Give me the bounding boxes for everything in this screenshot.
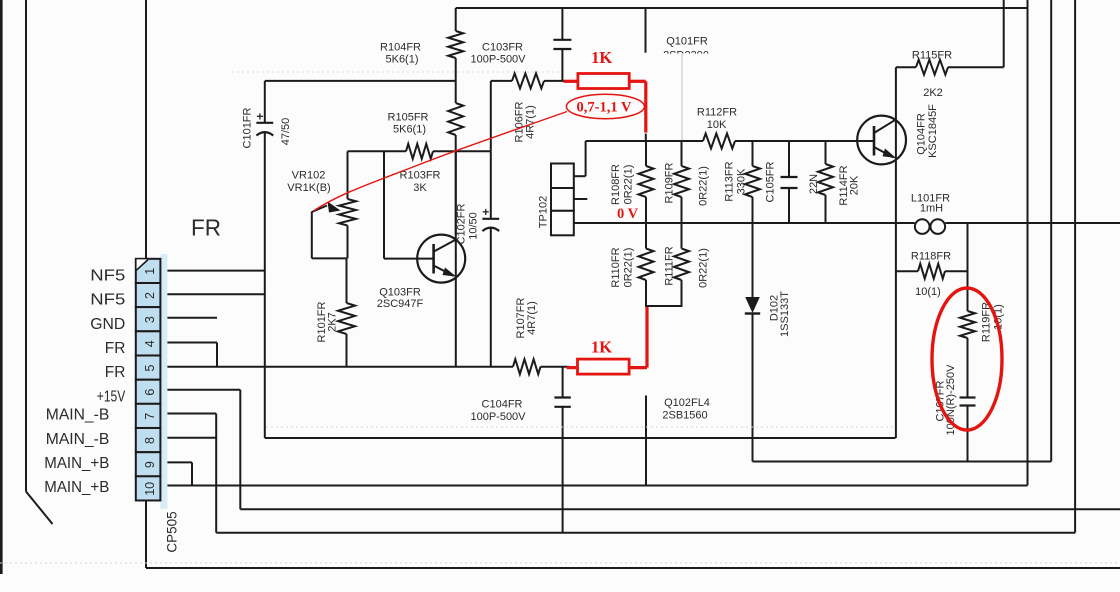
svg-text:R103FR: R103FR <box>400 170 441 182</box>
svg-text:0,7-1,1 V: 0,7-1,1 V <box>577 100 632 116</box>
svg-text:+: + <box>482 205 489 219</box>
svg-text:R112FR: R112FR <box>697 107 737 119</box>
svg-text:3: 3 <box>143 316 157 323</box>
svg-text:5K6(1): 5K6(1) <box>393 124 426 136</box>
svg-text:MAIN_-B: MAIN_-B <box>46 407 110 424</box>
svg-text:10/50: 10/50 <box>468 212 480 240</box>
svg-text:1: 1 <box>143 268 157 275</box>
svg-text:5: 5 <box>143 364 157 371</box>
svg-text:R109FR: R109FR <box>664 162 676 203</box>
svg-text:FR: FR <box>105 340 126 357</box>
svg-text:5K6(1): 5K6(1) <box>385 54 418 66</box>
svg-text:8: 8 <box>143 437 157 444</box>
svg-text:47/50: 47/50 <box>280 118 292 146</box>
svg-text:9: 9 <box>143 461 157 468</box>
svg-text:C101FR: C101FR <box>242 107 254 148</box>
svg-text:2K7: 2K7 <box>327 312 339 332</box>
svg-text:7: 7 <box>143 413 157 420</box>
svg-text:R104FR: R104FR <box>380 42 421 54</box>
svg-text:Q103FR: Q103FR <box>379 287 421 299</box>
svg-text:MAIN_+B: MAIN_+B <box>44 455 109 472</box>
svg-text:R105FR: R105FR <box>388 112 429 124</box>
svg-text:20K: 20K <box>849 175 861 195</box>
svg-text:MAIN_+B: MAIN_+B <box>44 479 109 496</box>
svg-text:CP505: CP505 <box>164 511 179 552</box>
svg-text:0R22(1): 0R22(1) <box>623 165 635 205</box>
svg-text:100P-500V: 100P-500V <box>470 54 526 66</box>
svg-text:FR: FR <box>191 215 221 241</box>
svg-text:VR102: VR102 <box>292 170 326 182</box>
svg-text:+15V: +15V <box>97 388 126 405</box>
svg-text:10: 10 <box>143 482 157 496</box>
svg-text:NF5: NF5 <box>90 268 125 285</box>
svg-text:2: 2 <box>143 292 157 299</box>
svg-text:330K: 330K <box>736 168 748 194</box>
svg-text:TP102: TP102 <box>538 196 550 228</box>
svg-text:Q104FR: Q104FR <box>916 113 928 155</box>
svg-text:R115FR: R115FR <box>912 50 952 62</box>
svg-text:R111FR: R111FR <box>664 246 676 285</box>
svg-text:Q101FR: Q101FR <box>666 36 708 48</box>
svg-text:22N: 22N <box>808 174 820 194</box>
svg-text:C103FR: C103FR <box>482 42 523 54</box>
svg-text:4R7(1): 4R7(1) <box>526 301 538 335</box>
svg-text:3K: 3K <box>413 182 427 194</box>
svg-text:2SC947F: 2SC947F <box>377 298 424 310</box>
svg-text:0R22(1): 0R22(1) <box>698 248 710 288</box>
svg-text:0R22(1): 0R22(1) <box>623 248 635 288</box>
svg-text:C105FR: C105FR <box>765 161 777 202</box>
svg-text:MAIN_-B: MAIN_-B <box>46 431 110 448</box>
svg-text:10(1): 10(1) <box>915 286 941 298</box>
svg-text:C104FR: C104FR <box>482 399 523 411</box>
svg-text:1K: 1K <box>591 338 612 357</box>
svg-text:10K: 10K <box>707 119 727 131</box>
svg-text:R113FR: R113FR <box>724 161 736 201</box>
svg-text:KSC1845F: KSC1845F <box>927 104 939 158</box>
svg-text:GND: GND <box>90 316 125 333</box>
svg-text:NF5: NF5 <box>90 292 125 309</box>
svg-text:+: + <box>256 109 263 123</box>
svg-text:1mH: 1mH <box>920 203 943 215</box>
svg-text:0R22(1): 0R22(1) <box>698 166 710 206</box>
svg-text:R110FR: R110FR <box>610 247 622 287</box>
svg-text:2K2: 2K2 <box>923 87 943 99</box>
svg-text:FR: FR <box>105 364 126 381</box>
svg-text:4R7(1): 4R7(1) <box>525 105 537 139</box>
svg-text:4: 4 <box>143 340 157 347</box>
svg-text:100P-500V: 100P-500V <box>470 411 526 423</box>
svg-text:1K: 1K <box>591 48 612 67</box>
svg-text:VR1K(B): VR1K(B) <box>287 182 330 194</box>
svg-text:6: 6 <box>143 389 157 396</box>
svg-text:1SS133T: 1SS133T <box>779 291 791 337</box>
svg-text:R118FR: R118FR <box>911 251 951 263</box>
svg-text:2SB1560: 2SB1560 <box>662 410 707 422</box>
svg-text:R108FR: R108FR <box>610 164 622 205</box>
svg-text:0 V: 0 V <box>617 206 639 222</box>
svg-text:Q102FL4: Q102FL4 <box>664 397 710 409</box>
svg-text:C102FR: C102FR <box>456 203 468 244</box>
